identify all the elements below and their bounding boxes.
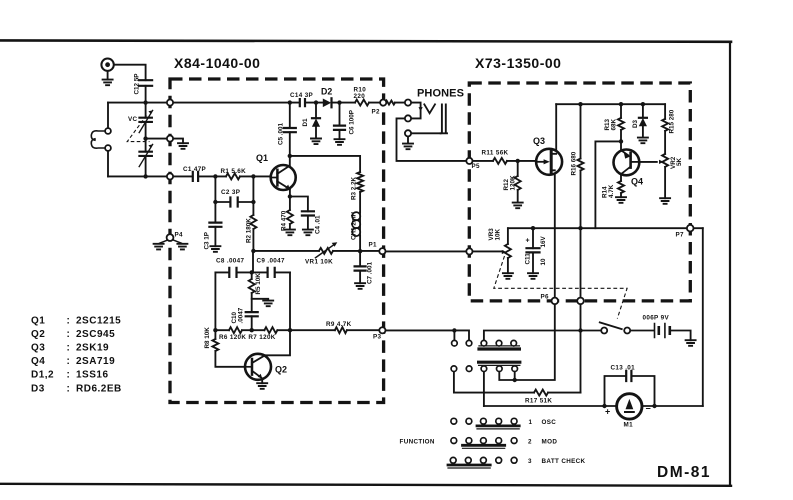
wire VC midpoint tap to ground terminal — [146, 139, 183, 144]
wire node to VR1 and P1 — [253, 250, 466, 253]
capacitor C8 .0047 plates — [229, 268, 236, 277]
transistor Q3 2SK19 FET — [536, 149, 562, 175]
resistor R15 280 vertical — [662, 119, 668, 131]
terminal P6 — [552, 298, 559, 305]
svg-text:R11 56K: R11 56K — [482, 150, 509, 157]
svg-text:C12 5P: C12 5P — [134, 73, 141, 94]
resistor R2 180K vertical — [250, 215, 256, 229]
wire R15 VR2 chain — [664, 104, 666, 198]
wire switch lever — [600, 322, 622, 329]
junction dots twin-T — [250, 270, 254, 274]
svg-text:OSC: OSC — [542, 419, 557, 426]
junction dots output rail — [531, 226, 535, 230]
wire R5 ground branch — [252, 299, 269, 301]
wire P2 to phone jack tip — [385, 101, 405, 105]
wire P3 switch line A — [386, 330, 469, 340]
wire D1 leg — [315, 103, 317, 139]
inductor CH1 2mH coil — [359, 212, 361, 236]
svg-text:P2: P2 — [372, 109, 381, 116]
power switch contact right — [624, 328, 630, 334]
svg-text:D2: D2 — [321, 87, 332, 97]
svg-text:D3: D3 — [632, 119, 639, 128]
svg-text:R1 5.6K: R1 5.6K — [221, 168, 247, 175]
svg-text:BATT CHECK: BATT CHECK — [542, 458, 586, 465]
svg-text:2SA719: 2SA719 — [76, 356, 115, 367]
wire R16 branch full drop — [580, 104, 582, 298]
svg-text:2SC945: 2SC945 — [76, 329, 115, 340]
terminal on X84 edge VC tap — [167, 136, 173, 142]
phone jack sleeve body — [441, 104, 447, 133]
svg-text:C14 3P: C14 3P — [290, 92, 313, 99]
svg-text:R3 2.2K: R3 2.2K — [351, 176, 358, 200]
wire C5 coupling leg — [289, 103, 291, 156]
svg-text:−: − — [646, 404, 651, 414]
switch wafer2 left open contacts — [451, 366, 457, 372]
resistor R8 10K vertical — [212, 339, 218, 351]
svg-text::: : — [67, 329, 71, 340]
svg-text:10K: 10K — [495, 228, 502, 240]
wire R17 line — [454, 372, 581, 393]
svg-text:P1: P1 — [369, 242, 378, 249]
coil socket terminal lower — [105, 145, 111, 151]
terminal P7 — [687, 225, 694, 232]
wire meter plus line — [484, 405, 703, 407]
svg-text:1SS16: 1SS16 — [76, 370, 109, 381]
svg-text:Q4: Q4 — [31, 356, 45, 367]
resistor R14 4.7K vertical — [618, 181, 624, 193]
wire R13 leg — [620, 104, 622, 151]
svg-text:M1: M1 — [624, 422, 634, 429]
transistor Q2 2SC945 — [245, 354, 271, 380]
capacitor C1 47P plates — [193, 172, 198, 181]
potentiometer VR1 10K wiper arrow — [319, 248, 333, 254]
capacitor C6 100P plates — [334, 126, 345, 130]
svg-text:2SC1215: 2SC1215 — [76, 316, 121, 327]
ground at C7 — [355, 283, 365, 289]
resistor R3 2.2K vertical — [357, 172, 363, 192]
svg-text::: : — [67, 370, 71, 381]
wire Q3 drain riser — [555, 104, 557, 153]
terminal P2 — [380, 100, 386, 106]
capacitor C13 .01 plates — [626, 371, 631, 381]
power switch contact left — [601, 328, 607, 334]
wire Q2 collector return — [265, 330, 290, 355]
wire jack ring to P5 — [397, 118, 467, 160]
wire C3 riser — [214, 176, 216, 246]
terminal X73 bottom edge second — [577, 298, 584, 305]
svg-text:Q2: Q2 — [275, 365, 287, 375]
svg-text:R4 470: R4 470 — [281, 210, 288, 231]
terminal P4 — [167, 234, 174, 241]
junction dots tank — [143, 136, 147, 140]
junction dot collector node — [288, 154, 292, 158]
wire VC branch vertical — [145, 103, 147, 177]
junction dots switch lines — [452, 328, 456, 332]
switch wafer1 contacts — [481, 340, 487, 346]
ground at VR3 — [503, 273, 513, 279]
svg-text:P4: P4 — [175, 232, 184, 239]
ground at Q2 emitter — [257, 383, 267, 389]
switch wafer1 bar — [479, 345, 519, 347]
svg-text:P6: P6 — [541, 294, 550, 301]
wire jack tip contact — [411, 103, 421, 119]
ground at C6 — [335, 139, 345, 145]
svg-text:+: + — [605, 407, 610, 417]
svg-text:R2 180K: R2 180K — [246, 218, 253, 243]
wire VR3 element leg — [507, 228, 509, 273]
junction dots base row — [213, 174, 217, 178]
phone jack tip spring contact — [424, 104, 435, 113]
wire R4 leg — [289, 197, 291, 230]
svg-text:D3: D3 — [31, 384, 45, 395]
svg-text:Q1: Q1 — [31, 316, 45, 327]
capacitor C14 3P plates — [300, 99, 305, 106]
svg-text:5K: 5K — [676, 157, 683, 166]
ground at battery — [686, 340, 696, 346]
wire P7 right drop to meter — [702, 228, 704, 406]
svg-text:P7: P7 — [676, 232, 685, 239]
svg-text:DM-81: DM-81 — [657, 464, 711, 481]
capacitor C11 10uF 16V plates — [527, 248, 540, 252]
svg-text:68K: 68K — [611, 118, 618, 130]
capacitor C3 1P plates — [209, 223, 221, 227]
transistor Q1 2SC1215 — [271, 165, 296, 190]
capacitor C4 .01 plates — [302, 211, 314, 215]
diode D3 RD6.2EB zener — [639, 117, 647, 119]
ground at R14 — [616, 197, 626, 203]
ground at D1 — [311, 139, 321, 145]
svg-text:C4 .01: C4 .01 — [315, 215, 322, 234]
diode D1 1SS16 — [312, 117, 320, 119]
coil plug symbol — [91, 131, 105, 148]
svg-text:P5: P5 — [472, 163, 481, 170]
capacitor C5 .001 plates — [284, 128, 296, 132]
function legend row2 MOD contacts — [451, 438, 457, 444]
wire R9 to P3 — [290, 329, 380, 331]
junction dots feedback node — [251, 249, 255, 253]
junction dot Q3 gate — [516, 159, 520, 163]
page border frame right — [729, 42, 731, 486]
wire C8 C9 row — [215, 271, 290, 273]
ground at C3 — [210, 246, 220, 252]
wire Q1 collector riser — [289, 156, 291, 165]
VC gang dashed linkage — [127, 116, 149, 142]
wire R8 leg to Q2 base — [215, 330, 252, 367]
terminal on X84 edge bottom rail — [167, 173, 173, 179]
resistor R5 10K vertical — [249, 279, 255, 293]
svg-text:C5 .001: C5 .001 — [278, 122, 285, 145]
function legend row3 BATT contacts — [450, 457, 456, 463]
wire C4 branch — [290, 197, 308, 230]
switch wafer2 bar — [479, 361, 520, 364]
wire Q3 source drop to P6 — [554, 171, 556, 298]
function legend row3 bar — [448, 464, 490, 467]
wire P1 line into X73 to VR3 wiper — [472, 250, 503, 252]
wire R5 C10 center leg — [251, 272, 253, 330]
svg-text:R8 10K: R8 10K — [204, 327, 211, 349]
switch wafer1 left open contacts — [452, 340, 458, 346]
ground at VR2 — [660, 198, 670, 204]
wire C13 parallel loop — [605, 376, 655, 406]
junction dot Q4 base node — [619, 139, 623, 143]
grounds at P4 chassis — [160, 240, 182, 243]
resistor R12 120K vertical — [515, 176, 521, 190]
junction dots meter line — [602, 404, 606, 408]
svg-text:220: 220 — [354, 93, 366, 100]
svg-text:C6 100P: C6 100P — [349, 110, 356, 135]
wire twin-T center riser — [252, 251, 254, 273]
capacitor C9 .0047 plates — [268, 268, 275, 277]
wire C2 link — [215, 201, 253, 203]
resistor R11 56K — [493, 158, 507, 164]
wire wafer2 contact1 drop to meter line — [483, 372, 485, 407]
svg-text:R16 680: R16 680 — [571, 151, 578, 175]
wire oscillator top rail — [108, 102, 381, 104]
svg-text:X73-1350-00: X73-1350-00 — [475, 55, 561, 71]
ground at antenna connector — [107, 71, 109, 80]
switch wafer2 contacts — [481, 366, 487, 372]
wire R14 leg — [620, 175, 622, 198]
resistor R7 120K — [264, 327, 277, 333]
svg-text:R6 120K R7 120K: R6 120K R7 120K — [219, 334, 276, 341]
svg-text:R9 4.7K: R9 4.7K — [326, 321, 352, 328]
resistor R1 5.6K — [226, 173, 240, 179]
wire X73 top rail — [556, 103, 665, 105]
wire P6 drop to wafer2 contacts — [499, 304, 555, 380]
terminal P5 — [466, 158, 472, 164]
svg-text:C7 .001: C7 .001 — [367, 261, 374, 284]
phone jack sleeve terminal — [405, 130, 411, 136]
shield box X73-1350-00 dashed — [469, 83, 690, 301]
ground at VC midpoint terminal — [178, 143, 188, 149]
wire Q4 base node to P7 drop — [595, 141, 621, 228]
terminal P3 — [379, 327, 385, 333]
variable capacitor VC section1 — [139, 118, 152, 122]
function legend row1 OSC contacts — [451, 418, 457, 424]
resistor R17 51K — [534, 390, 548, 396]
phone jack tip terminal — [405, 100, 411, 106]
svg-text:+: + — [526, 238, 530, 245]
ground at C4 — [303, 230, 313, 236]
svg-text:R15 280: R15 280 — [669, 109, 676, 133]
svg-text:C3 1P: C3 1P — [204, 232, 211, 250]
svg-text:16V: 16V — [540, 235, 547, 247]
phone jack ring terminal — [405, 115, 411, 121]
terminal P1 — [379, 248, 385, 254]
ground at phone jack — [403, 144, 413, 150]
resistor R16 680 vertical — [578, 159, 584, 171]
svg-text:4.7K: 4.7K — [608, 184, 615, 198]
shield box X84-1040-00 dashed — [170, 79, 384, 403]
svg-text:VC: VC — [128, 116, 138, 123]
svg-text:3: 3 — [528, 458, 532, 465]
svg-text:X84-1040-00: X84-1040-00 — [174, 55, 260, 71]
wire P5 to R11 to Q3 gate — [472, 160, 536, 162]
ground at C11 — [528, 273, 538, 279]
resistor R9 4.7K — [335, 327, 347, 333]
svg-text:10: 10 — [540, 258, 547, 266]
wire output rail VR3 C11 to P7 — [508, 227, 703, 229]
wire twin-T right tie — [289, 272, 291, 330]
wire VR2 wiper from Q4 — [639, 161, 657, 163]
switch linkage dashed VR3 to power switch — [494, 256, 627, 319]
wire R2 riser base to feedback node — [252, 176, 254, 251]
wire wafer1 contact riser line B to power switch — [484, 331, 601, 341]
wire R6 R7 row — [215, 329, 290, 331]
capacitor C12 5P plates — [139, 80, 152, 86]
function legend row2 bar — [463, 444, 505, 447]
svg-text:C8 .0047: C8 .0047 — [216, 258, 245, 265]
variable capacitor VC section2 — [139, 152, 152, 156]
wire C11 leg — [532, 228, 534, 273]
svg-text:.0047: .0047 — [238, 307, 245, 323]
wire jack sleeve contact to ground — [408, 133, 441, 143]
svg-text:Q3: Q3 — [533, 136, 545, 146]
page border frame top — [0, 40, 731, 41]
ground at D3 — [638, 138, 648, 144]
svg-text::: : — [67, 356, 71, 367]
wire tank left vertical to coil socket — [107, 103, 109, 177]
svg-text:006P 9V: 006P 9V — [643, 315, 670, 322]
capacitor C10 .0047 plates — [246, 312, 258, 316]
function legend row1 bar — [477, 424, 519, 427]
ground at R12 — [513, 203, 523, 209]
svg-text:Q3: Q3 — [31, 343, 45, 354]
resistor R13 68K vertical — [618, 118, 624, 130]
wire oscillator bottom rail with C1 R1 — [108, 175, 271, 177]
svg-text:VR1 10K: VR1 10K — [305, 259, 333, 266]
wire Q2 emitter to ground — [261, 378, 263, 383]
svg-text:D1,2: D1,2 — [31, 370, 54, 381]
transistor Q4 2SA719 — [614, 150, 640, 176]
svg-text:R17 51K: R17 51K — [525, 398, 552, 405]
wire C7 leg — [359, 251, 361, 283]
resistor R4 470 vertical — [287, 210, 293, 224]
terminal on X84 edge top rail — [167, 100, 173, 106]
capacitor C2 3P plates — [230, 198, 237, 207]
svg-text:C13 .01: C13 .01 — [611, 365, 636, 372]
svg-text:RD6.2EB: RD6.2EB — [76, 384, 122, 395]
wire Q1 emitter node — [289, 189, 291, 197]
junction dots X73 top rail — [578, 102, 582, 106]
wire collector node to R3 CH1 — [290, 156, 360, 251]
svg-text:PHONES: PHONES — [417, 88, 464, 100]
meter M1 — [617, 394, 642, 419]
wire R16 line below box to R17 — [580, 304, 582, 393]
svg-text:MOD: MOD — [542, 438, 558, 445]
junction dot Q1 emitter — [288, 194, 292, 198]
svg-text::: : — [67, 343, 71, 354]
terminal X73 edge P1 line — [466, 248, 472, 254]
svg-text:C11: C11 — [525, 253, 532, 265]
svg-text::: : — [67, 316, 71, 327]
ground at R4 — [285, 230, 295, 236]
coil socket terminal upper — [105, 128, 111, 134]
wire C6 leg — [339, 103, 341, 140]
svg-text:C9 .0047: C9 .0047 — [257, 258, 286, 265]
battery 006P 9V — [655, 324, 665, 338]
resistor R10 220 — [355, 100, 369, 106]
wire battery to ground — [672, 331, 691, 341]
svg-text:CH1 2mH: CH1 2mH — [351, 212, 358, 240]
wire twin-T left tie — [214, 272, 216, 330]
svg-text:C2 3P: C2 3P — [221, 189, 240, 196]
svg-text:D1: D1 — [302, 118, 309, 127]
svg-text:1: 1 — [529, 419, 533, 426]
junction dots oscillator rail — [143, 100, 147, 104]
potentiometer VR3 wiper arrowhead — [502, 250, 507, 254]
svg-text::: : — [67, 384, 71, 395]
resistor R6 120K — [229, 327, 242, 333]
capacitor C7 .001 plates — [355, 266, 366, 270]
svg-text:2: 2 — [528, 438, 532, 445]
wire switch to battery — [630, 330, 653, 332]
diode D2 1SS16 — [323, 99, 331, 108]
wire antenna connector to C12 — [114, 65, 146, 103]
svg-text:P3: P3 — [373, 334, 382, 341]
svg-text:FUNCTION: FUNCTION — [400, 438, 435, 445]
svg-text:Q4: Q4 — [631, 177, 643, 187]
svg-text:2SK19: 2SK19 — [76, 343, 109, 354]
potentiometer VR2 5K element — [662, 154, 668, 167]
potentiometer VR3 10K element — [505, 244, 511, 258]
svg-text:Q1: Q1 — [256, 153, 268, 163]
antenna coupling connector — [101, 58, 113, 70]
svg-text:120K: 120K — [510, 175, 517, 191]
svg-text:C1 47P: C1 47P — [183, 166, 206, 173]
ground at R5 — [263, 301, 273, 307]
wire R12 leg — [517, 161, 519, 203]
potentiometer VR2 wiper arrowhead — [659, 160, 664, 164]
svg-text:Q2: Q2 — [31, 329, 45, 340]
wire D3 leg — [642, 104, 644, 137]
svg-text:R5 10K: R5 10K — [255, 273, 262, 295]
page border frame bottom — [0, 484, 731, 486]
